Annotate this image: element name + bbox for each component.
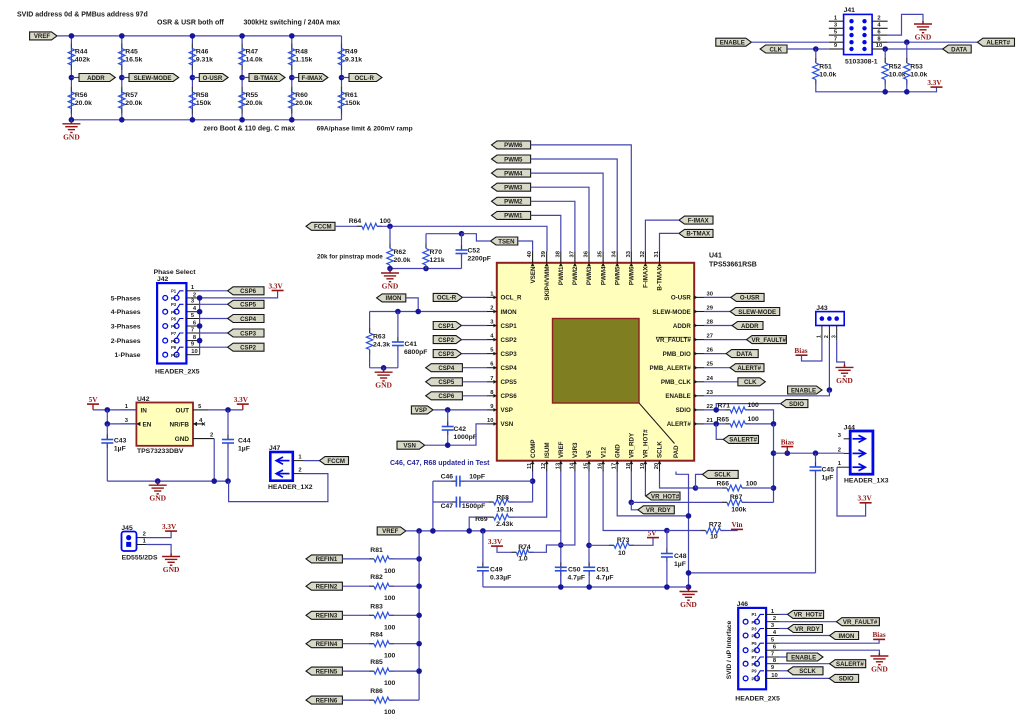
svg-text:10: 10 [618,550,626,557]
svg-text:OCL-R: OCL-R [437,295,457,302]
wire ENABLE to J41 pin7 [751,41,828,43]
U41 pin 1 OCL_R [487,296,497,298]
wire PWM3 to pin 36 [531,187,589,251]
capacitor C50 [560,562,562,567]
capacitor C48 [666,531,668,554]
power Vin R72 [731,528,743,530]
svg-text:IMON: IMON [838,633,854,640]
svg-text:P4: P4 [171,310,177,315]
svg-text:Bias: Bias [794,347,807,355]
svg-text:DATA: DATA [736,351,753,358]
svg-text:U42: U42 [137,396,150,403]
net B-TMAX flag [242,77,249,79]
wire J47 pin2 to gnd bus [229,474,328,502]
svg-text:VREF: VREF [382,528,399,535]
U41 pin 24 PMB_CLK [694,381,704,383]
net ENABLE flag J41 [716,38,752,46]
svg-text:R46: R46 [196,49,209,56]
wire R82 to vref bus [389,585,419,587]
U41 pin 36 PWM3 [588,252,590,263]
svg-text:1: 1 [817,335,823,338]
U41 pin 2 IMON [487,311,497,313]
net ALERT# flag at pin25 [704,367,730,369]
power 3.3V U42 [237,403,249,405]
svg-text:R55: R55 [246,92,259,99]
resistor R53 [906,42,908,63]
net VREF flag bottom [377,527,406,535]
svg-text:R44: R44 [75,49,88,56]
svg-text:VR_RDY: VR_RDY [629,432,636,458]
svg-text:VSN: VSN [501,421,514,428]
svg-text:C44: C44 [238,438,251,445]
svg-text:V12: V12 [600,446,607,458]
wire OUT to 3.3V [209,409,243,411]
connector J42 phase select [157,283,186,363]
resistor R81 [342,558,374,560]
svg-text:GND: GND [175,436,190,443]
connector J41 [844,14,873,54]
svg-text:R72: R72 [709,522,722,529]
svg-text:R69: R69 [475,516,488,523]
resistor R73 [589,544,614,546]
ground GND U42 [157,481,159,485]
connector J45 [122,532,137,552]
resistor R61 [341,87,343,92]
svg-text:GND: GND [871,665,888,674]
svg-text:VSP: VSP [501,407,513,414]
svg-text:O-USR: O-USR [740,295,760,302]
svg-text:Vin: Vin [732,521,743,529]
svg-text:3.3V: 3.3V [858,495,873,503]
svg-text:16.5k: 16.5k [125,57,142,64]
U41 pin 35 PWM4 [602,252,604,263]
resistor R55 [241,87,243,92]
wire CSP1 to pin3 [462,325,488,327]
J41 pin 9 stub [829,48,844,50]
J46 pin 1 stub [766,613,779,615]
svg-text:SLEW-MODE: SLEW-MODE [738,309,776,316]
U41 pin 4 CSP2 [487,339,497,341]
wire R66 to bias vertical [742,487,774,489]
resistor R83 [342,614,374,616]
svg-text:P6: P6 [752,648,758,653]
U41 pin 6 CSP4 [487,367,497,369]
wire PWM2 to pin 37 [531,201,575,251]
wire TSEN to C52 node [462,234,491,241]
wire R64 to pin 39 [377,226,547,251]
svg-text:CPS6: CPS6 [501,393,518,400]
svg-text:SVID address 0d & PMBus addres: SVID address 0d & PMBus address 97d [17,12,148,19]
wire PWM5 to pin 34 [531,159,618,252]
svg-text:PWM5: PWM5 [504,156,523,163]
resistor R82 [342,585,374,587]
net IMON flag J46 [779,635,830,637]
svg-text:CSP6: CSP6 [438,393,455,400]
net CSP6 flag J42 [200,290,228,292]
capacitor C45 [815,453,817,467]
svg-text:16: 16 [598,462,604,469]
svg-text:OCL_R: OCL_R [501,295,523,302]
svg-text:100: 100 [384,709,396,716]
J44 pin3 stub [844,438,851,440]
svg-text:C43: C43 [114,438,127,445]
net VSN flag [397,441,425,449]
svg-text:PMB_DIO: PMB_DIO [663,351,691,358]
U41 pin 33 PWM6 [630,252,632,263]
J43 pin 3 stub [836,326,838,341]
svg-text:SALERT#: SALERT# [836,661,864,668]
resistor R44 [70,44,72,49]
svg-text:CPS5: CPS5 [501,379,518,386]
svg-text:7: 7 [191,327,194,333]
svg-text:zero Boot & 110 deg. C max: zero Boot & 110 deg. C max [203,126,295,133]
svg-text:R60: R60 [295,92,308,99]
svg-text:R57: R57 [125,92,138,99]
svg-text:10.0k: 10.0k [819,72,836,79]
wire bias node to J44 pin2 [774,452,844,454]
capacitor C42 [447,410,449,427]
net VR_RDY flag J46 [779,628,788,630]
wire CSP2 to pin4 [462,339,488,341]
svg-text:R73: R73 [617,537,630,544]
svg-text:J45: J45 [121,525,133,532]
J46 pin 4 stub [766,635,779,637]
svg-text:P9: P9 [752,669,758,674]
svg-text:TPS73233DBV: TPS73233DBV [137,448,184,455]
capacitor C49 [482,531,484,567]
svg-text:P4: P4 [752,634,758,639]
wire U42 GND down [213,439,215,482]
svg-text:V5: V5 [586,450,593,458]
net OCL-R flag [342,77,350,79]
wire R71 to bias vertical [745,410,773,424]
net TSEN flag [491,237,518,245]
svg-text:3.3V: 3.3V [269,282,284,290]
capacitor C43 [106,424,108,440]
wire R85 to vref bus [389,670,419,672]
svg-text:CSP2: CSP2 [240,345,257,352]
U42 pin2 GND [193,438,214,440]
svg-text:O-USR: O-USR [203,75,223,82]
ground GND R63 [383,368,385,371]
svg-text:C45: C45 [822,467,835,474]
wire J41 pin10 to DATA [888,48,943,50]
svg-text:R48: R48 [295,49,308,56]
svg-text:100: 100 [748,416,760,423]
U41 pin 10 VSN [487,423,497,425]
U41 pin 8 CPS6 [487,395,497,397]
U41 pin 32 F-IMAX [644,252,646,263]
svg-text:P7: P7 [171,331,177,336]
svg-text:REFIN2: REFIN2 [316,584,338,591]
net B-TMAX flag right [679,229,713,237]
U41 pin 12 ISUM [546,461,548,472]
wire F-IMAX to pin 32 [645,220,679,251]
svg-text:GND: GND [614,444,621,458]
svg-text:DATA: DATA [951,46,968,53]
svg-text:R49: R49 [345,49,358,56]
svg-text:32: 32 [640,251,646,257]
svg-text:29: 29 [707,306,714,312]
wire pin16 V12 down [603,472,667,531]
J41 pin 2 stub [872,20,888,22]
U41 pin 37 PWM2 [574,252,576,263]
svg-text:U41: U41 [709,253,722,260]
svg-text:100: 100 [384,624,396,631]
svg-text:J42: J42 [157,276,169,283]
svg-text:R83: R83 [370,603,383,610]
svg-text:CSP4: CSP4 [438,365,455,372]
svg-text:2: 2 [773,616,776,622]
svg-text:C46, C47, R68 updated in Test: C46, C47, R68 updated in Test [390,460,490,467]
svg-text:4-Phases: 4-Phases [111,309,141,316]
J41 pin 7 stub [829,41,844,43]
net SCLK flag [696,474,703,488]
svg-text:26: 26 [707,348,714,354]
capacitor C44 [227,410,229,440]
wire SCLK to R66 [696,487,728,489]
U42 pin3 EN [121,423,137,425]
resistor R72 [667,530,706,532]
svg-text:2.43k: 2.43k [496,521,513,528]
svg-text:19.1k: 19.1k [496,506,513,513]
svg-text:1µF: 1µF [114,445,126,452]
svg-text:CSP6: CSP6 [240,288,257,295]
wire TSEN to pin 40 [518,241,533,252]
U41 pin 5 CSP3 [487,353,497,355]
svg-text:ADDR: ADDR [741,323,759,330]
svg-text:PWM2: PWM2 [572,266,579,285]
wire J41 pin6 to GND [888,14,923,35]
J41 pin 8 stub [872,41,888,43]
J45 pin2 wire to 3.3V [137,537,147,539]
svg-text:39: 39 [541,250,547,257]
svg-text:VREF: VREF [34,33,51,40]
wire R67 to bias vertical [742,501,774,503]
U41 pin 13 VREF [560,461,562,472]
svg-text:ADDR: ADDR [87,75,105,82]
wire VSP to pin9 [433,409,487,411]
svg-text:2: 2 [193,292,196,298]
svg-text:2: 2 [838,447,841,453]
svg-text:100: 100 [384,595,396,602]
svg-text:2: 2 [210,433,213,439]
wire C46 C47 left node [432,481,434,530]
svg-text:R70: R70 [430,249,443,256]
IC U41 thermal pad [553,319,640,404]
svg-text:PWM6: PWM6 [629,266,636,285]
svg-text:7: 7 [834,36,837,42]
wire R70 top to node [426,233,462,235]
wire pin14 V3R3 down [561,472,575,546]
svg-text:2200pF: 2200pF [468,256,491,263]
wire pin2 IMON net [370,311,487,313]
wire pin22 to R71 [704,409,730,411]
svg-text:F-IMAX: F-IMAX [688,217,710,224]
IC U41 pad diagonal [639,403,675,444]
svg-text:2-Phases: 2-Phases [111,338,141,345]
svg-text:24.3k: 24.3k [373,342,390,349]
svg-text:HEADER_2X5: HEADER_2X5 [735,696,780,703]
resistor R56 [70,87,72,92]
svg-text:P8: P8 [171,339,177,344]
svg-text:GND: GND [680,600,697,609]
svg-text:C52: C52 [468,248,481,255]
svg-text:30: 30 [707,291,713,297]
U41 pin 22 SDIO [694,409,704,411]
net CSP6 flag at pin8 [426,392,463,400]
net VR_HOT# flag [646,492,680,500]
svg-text:PWM3: PWM3 [504,185,523,192]
J46 pin 8 stub [766,663,779,665]
svg-text:150k: 150k [196,100,211,107]
J46 pin 5 stub [766,642,779,644]
svg-text:EN: EN [143,421,152,428]
svg-text:VREF: VREF [558,441,565,458]
svg-text:C46: C46 [441,473,454,480]
svg-text:R51: R51 [819,64,832,71]
power 3.3V J44 [860,502,872,504]
net CLK flag J41 [760,45,787,53]
power 5V R73 [647,537,659,539]
J45 pin1 wire to GND [137,544,147,546]
wire J43 pin2 to ENABLE node [828,340,830,390]
resistor R46 [191,44,193,49]
wire pin13 VREF down [560,472,562,531]
svg-text:150k: 150k [345,100,360,107]
U41 pin 16 V12 [602,461,604,472]
svg-text:CSP3: CSP3 [240,330,257,337]
net REFIN6 flag [306,696,342,704]
svg-text:0.33µF: 0.33µF [490,574,511,581]
resistor R66 [722,487,727,489]
svg-text:20.0k: 20.0k [75,100,92,107]
U41 pin 15 V5 [588,461,590,472]
svg-text:R58: R58 [196,92,209,99]
svg-text:PAD: PAD [673,445,680,458]
svg-text:3.3V: 3.3V [234,396,249,404]
U41 pin 3 CSP1 [487,325,497,327]
net DATA flag at pin26 [704,353,726,355]
J41 pin 5 stub [829,34,844,36]
svg-text:100: 100 [384,680,396,687]
svg-text:2: 2 [824,335,830,338]
net OCL-R flag at pin1 [433,293,462,301]
svg-text:P3: P3 [171,302,177,307]
svg-text:COMP: COMP [530,439,537,458]
resistor R70 [425,234,427,249]
net SLEW-MODE flag [122,77,129,79]
power 3.3V J41 [931,86,943,88]
net DATA flag J41 [943,45,972,53]
wire C45 bottom to gnd vertical [689,572,816,574]
svg-text:OCL-R: OCL-R [355,75,375,82]
net CSP3 flag J42 [200,332,228,334]
net ADDR flag [71,77,79,79]
svg-text:20k for pinstrap mode: 20k for pinstrap mode [317,254,383,261]
J43 pin 1 stub [821,326,823,341]
J44 pin1 stub [837,466,850,468]
svg-text:PMB_ALERT#: PMB_ALERT# [650,365,692,372]
net PWM6 flag [492,141,531,149]
U42 pin4 NR/FB [193,423,203,425]
svg-text:P10: P10 [171,353,179,358]
net CSP4 flag J42 [200,318,228,320]
J42 pin 10 stub [186,354,199,356]
svg-text:HEADER_2X5: HEADER_2X5 [155,369,200,376]
svg-text:P1: P1 [171,289,177,294]
svg-text:P3: P3 [752,626,758,631]
svg-text:C47: C47 [441,503,454,510]
svg-text:P10: P10 [752,677,760,682]
svg-text:VR_FAULT#: VR_FAULT# [843,619,878,626]
svg-text:2: 2 [490,306,493,312]
U41 pin 40 VSEN [532,252,534,263]
svg-text:23: 23 [707,390,714,396]
svg-text:SCLK: SCLK [714,472,731,479]
net CSP4 flag at pin6 [426,364,463,372]
net PWM2 flag [492,197,531,205]
svg-text:R61: R61 [345,92,358,99]
svg-text:402k: 402k [75,57,90,64]
net IMON flag [377,294,406,302]
resistor R48 [291,44,293,49]
svg-text:7: 7 [771,651,774,657]
svg-text:19: 19 [640,462,646,469]
net PWM3 flag [492,183,531,191]
ground GND R62 [389,269,391,274]
U41 pin 17 GND [616,461,618,472]
wire FCCM to R64 [335,225,362,227]
svg-text:REFIN1: REFIN1 [316,556,338,563]
power Bias C45 [781,446,793,448]
U41 pin 19 VR_HOT# [644,461,646,472]
resistor R69 [469,517,493,531]
wire R62 bottom node [390,265,462,269]
U41 pin 7 CPS5 [487,381,497,383]
svg-text:10: 10 [710,534,718,541]
svg-text:REFIN4: REFIN4 [316,641,338,648]
svg-text:GND: GND [915,33,932,42]
capacitor C41 [397,312,399,343]
U41 pin 30 O-USR [694,296,704,298]
U41 pin 27 VR_FAULT# [694,339,704,341]
wire column 5 [291,36,293,120]
svg-text:PWM4: PWM4 [504,170,523,177]
wire pullup bus to 3.3V [816,80,937,92]
svg-text:J44: J44 [844,424,856,431]
svg-text:ED555/2DS: ED555/2DS [122,554,158,561]
svg-text:R65: R65 [717,417,730,424]
svg-text:GND: GND [149,494,166,503]
svg-text:SCLK: SCLK [799,668,816,675]
J42 pin 4 stub [186,311,199,313]
J42 pin 6 stub [186,325,199,327]
wire PWM4 to pin 35 [531,173,604,251]
svg-text:C42: C42 [454,426,467,433]
wire VREF top bus [57,35,342,37]
U41 pin 34 PWM5 [616,252,618,263]
svg-text:14.0k: 14.0k [246,57,263,64]
svg-text:1.0: 1.0 [518,556,528,563]
ground GND J41 [914,21,932,33]
svg-text:12: 12 [541,463,547,469]
svg-text:C41: C41 [405,341,418,348]
svg-text:100: 100 [748,402,760,409]
svg-text:Bias: Bias [873,631,886,639]
J46 pin 2 stub [766,621,779,623]
svg-text:CSP2: CSP2 [438,337,455,344]
